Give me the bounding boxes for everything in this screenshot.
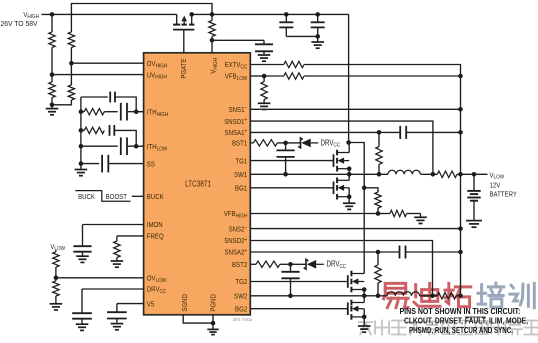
node VFBHIGH top tap (362, 186, 367, 191)
ground V5 cap (111, 323, 124, 325)
resistor R6 (EXTVCC) (284, 61, 304, 67)
svg-text:SNS2−: SNS2− (229, 224, 248, 233)
capacitor C13 (IMON) (82, 225, 84, 247)
ground FREQ resistor (111, 260, 124, 262)
wire SNSD1+ row (250, 121, 433, 174)
svg-text:PGATE: PGATE (180, 58, 188, 79)
transistor M4 (bottom FET ch2) (347, 302, 349, 315)
resistor R10 (BST1) (253, 140, 277, 146)
wire BG1 row (250, 187, 333, 189)
wire SW1 row (250, 173, 388, 175)
capacitor C8 (ITH high ff) (109, 92, 111, 103)
inductor L1 (388, 170, 420, 174)
wire V5 row (117, 303, 144, 305)
wire M4 arrow join (363, 309, 365, 317)
wire VHIGH bypass (212, 39, 264, 41)
wire M2 arrow join (348, 188, 350, 197)
wire SNSA1+ cap to rail (406, 131, 460, 133)
transistor M2 (bottom FET ch1) (333, 182, 335, 195)
svg-text:BATTERY: BATTERY (490, 191, 518, 199)
ground M2 source (348, 197, 350, 204)
capacitor C9 (ITHHIGH) (120, 103, 122, 121)
svg-text:LTC3871: LTC3871 (185, 179, 211, 189)
diode D2 schottky DRVCC-BST2 (304, 259, 309, 269)
capacitor C11 (ITHLOW) (120, 137, 122, 155)
wire SS row (81, 163, 99, 165)
svg-text:BST2: BST2 (232, 261, 247, 269)
wire SNS2- row (250, 228, 460, 230)
resistor R21 (OVLOW lower) (55, 278, 57, 281)
wire top jumper to divider 2 (71, 4, 212, 33)
node ITHLOW junction (134, 144, 139, 149)
svg-text:12V: 12V (490, 182, 501, 190)
wire VHIGH feed to ch2 (349, 143, 365, 274)
node bulk cap ground junction (315, 34, 320, 39)
node VLOW sense junction top (458, 74, 463, 79)
resistor R12 (VFBHIGH lower) (390, 210, 407, 216)
node VFBLOW divider tap (262, 74, 267, 79)
capacitor C14 (DRVCC) (81, 289, 83, 313)
node L1 output (431, 172, 436, 177)
battery BT1 (473, 174, 475, 191)
wire SNSA2+ to cap (378, 251, 400, 253)
svg-text:SNSA1+: SNSA1+ (225, 128, 248, 137)
wire BST2 node to diode (291, 263, 307, 265)
wire bulk cap commons (286, 35, 317, 37)
ground M4 source (363, 317, 365, 326)
wire L1 to shunt (420, 173, 437, 175)
wire BG2 row (250, 308, 347, 310)
node SNSA1+ rail junction (458, 130, 463, 135)
wire OVLOW row (56, 277, 144, 279)
wire ITH top branch (81, 96, 108, 98)
wire C12 to pin (108, 163, 143, 165)
wire TG1 row (250, 160, 333, 162)
resistor R13 (shunt ch1) (437, 171, 457, 177)
svg-text:SW2: SW2 (234, 293, 247, 301)
wire EXTVCC to VLOW rail (304, 65, 461, 77)
node VLOW rail bottom junction (458, 294, 463, 299)
svg-text:SGND: SGND (182, 294, 190, 312)
wire VFBLOW to VLOW rail (304, 75, 461, 77)
capacitor C10 (ITHLOW branch) (109, 125, 111, 136)
node VFBHIGH junction (376, 211, 381, 216)
svg-text:SNSA2+: SNSA2+ (225, 248, 248, 257)
ground ITH bus (80, 164, 82, 170)
wire shunt to VLOW (457, 173, 488, 175)
resistor R8 (VFBLOW upper) (284, 73, 304, 79)
node ITH bus 3 (79, 144, 84, 149)
node ITH bus 4 (79, 161, 84, 166)
wire SNSA2+ cap to rail (406, 251, 461, 253)
wire M1 source to SW1 (348, 169, 350, 175)
resistor R5 (VHIGH series) (211, 14, 213, 20)
ground divider (51, 105, 53, 109)
wire C9 to pin (127, 111, 144, 113)
node SW1 sense tap (377, 172, 382, 177)
inductor L2 (387, 292, 419, 296)
node C5 to SW1 (283, 172, 288, 177)
svg-text:SS: SS (147, 161, 155, 169)
capacitor C2 (input bulk) (285, 14, 287, 22)
resistor R7 (VFBLOW lower) (263, 76, 265, 82)
node M1 source (347, 166, 352, 171)
wire L2 to shunt (420, 295, 438, 297)
node battery junction (472, 172, 477, 177)
resistor R14 (DCR sense ch2) (377, 252, 379, 265)
wire SGND lead (183, 315, 213, 323)
ground bulk caps (317, 36, 319, 42)
wire VFBHIGH to R12 (378, 213, 390, 215)
node ITH bus 2 (79, 128, 84, 133)
resistor R16 (shunt ch2) (437, 293, 456, 299)
resistor R15 (BST2) (256, 261, 280, 267)
wire SNSA2+ row left (250, 251, 378, 253)
ground PGND (212, 323, 214, 329)
node SW2 junction (362, 294, 367, 299)
ground VFBLOW divider (258, 102, 271, 104)
wire BST1 to node (277, 142, 285, 144)
wire BST1 node to diode (286, 142, 301, 144)
node OV tap (69, 61, 74, 66)
wire VLOW sense rail (460, 76, 462, 296)
resistor R9 (DCR sense ch1) (378, 132, 380, 146)
wire OVHIGH (71, 62, 143, 64)
wire VHIGH pin stub (211, 40, 213, 53)
svg-text:BST1: BST1 (232, 140, 247, 148)
svg-text:CLKOUT, DRVSET, FAULT, ILIM, M: CLKOUT, DRVSET, FAULT, ILIM, MODE, (404, 317, 528, 326)
capacitor C7 (BST2) (290, 264, 292, 272)
node M1 drain VHIGH (346, 140, 351, 145)
wire FREQ row (117, 235, 144, 237)
svg-text:PHSMD, RUN, SETCUR AND SYNC.: PHSMD, RUN, SETCUR AND SYNC. (409, 326, 513, 335)
capacitor C3 (input bulk) (317, 14, 319, 22)
node BST1 junction (283, 141, 288, 146)
resistor R4 (OV divider 2 bottom) (70, 63, 72, 85)
label BUCK BOOST levels (75, 191, 130, 202)
watermark row 2 (grey CJK text) (359, 322, 373, 334)
ground battery (466, 220, 482, 222)
svg-text:BUCK: BUCK (147, 193, 164, 201)
capacitor C12 (soft start) (101, 155, 103, 173)
node SNS1- junction (458, 107, 463, 112)
transistor M1 (top FET ch1) (333, 154, 335, 167)
wire C11 to pin (127, 145, 144, 147)
svg-text:BOOST: BOOST (106, 193, 128, 201)
svg-text:V5: V5 (147, 301, 155, 309)
svg-text:SW1: SW1 (234, 171, 247, 179)
ground DRVCC cap (76, 323, 89, 325)
node input junction (50, 12, 55, 17)
wire VFBLOW row (250, 75, 264, 77)
transistor M3 (top FET ch2) (347, 275, 349, 288)
wire VFBLOW row 2 (264, 75, 284, 77)
capacitor C15 (V5) (116, 304, 118, 313)
svg-text:26V TO 58V: 26V TO 58V (1, 19, 38, 28)
wire IMON row (83, 224, 144, 226)
watermark row 1 (red/slate CJK logo) (384, 283, 409, 307)
node ITH bus 1 (79, 109, 84, 114)
capacitor C6 (SNSA2 filter) (399, 246, 401, 259)
node SW2 sense tap (376, 294, 381, 299)
wire C8 to ITHHIGH (115, 97, 136, 112)
wire BST2 stub (250, 263, 256, 265)
wire SW2 row (250, 295, 387, 297)
node divider ground junction (50, 103, 55, 108)
node VHIGH pin junction (210, 38, 215, 43)
node SNSA1+ tap (377, 130, 382, 135)
wire SNSA1+ row left (250, 131, 379, 133)
wire ITHLOW row (81, 145, 118, 147)
node M3 source (362, 287, 367, 292)
svg-text:BG1: BG1 (235, 185, 247, 193)
wire BUCK pin (132, 195, 144, 197)
node L2 output (430, 294, 435, 299)
wire VHIGH down to M1 drain (348, 14, 350, 142)
ground VFBHIGH divider (414, 216, 427, 218)
wire M3 source to SW2 (363, 290, 365, 296)
resistor R18 (ITHLOW branch) (81, 129, 84, 131)
svg-text:SNS1−: SNS1− (229, 105, 248, 114)
node M4 source (362, 315, 367, 320)
svg-text:3871 TA01a: 3871 TA01a (233, 316, 253, 322)
wire TG2 row (250, 281, 347, 283)
node ITHHIGH junction (134, 109, 139, 114)
svg-text:BUCK: BUCK (78, 193, 95, 201)
resistor R17 (ITHHIGH) (84, 109, 104, 115)
svg-text:IMON: IMON (147, 222, 163, 230)
svg-text:SNSD2+: SNSD2+ (224, 236, 247, 245)
wire BST2 to node (280, 263, 291, 265)
wire SNSA1+ to cap (379, 131, 400, 133)
wire branch2 to ITHLOW (114, 130, 136, 146)
capacitor C1 (VHIGH bypass) (255, 43, 273, 45)
node UV tap (50, 72, 55, 77)
node C7 to SW2 (288, 294, 293, 299)
wire PGND lead (212, 315, 214, 323)
svg-text:SNSD1+: SNSD1+ (224, 117, 247, 126)
wire VFBHIGH row (250, 213, 378, 215)
wire VHIGH rail to cap corner (192, 13, 349, 15)
resistor R3 (OV divider 2 top) (68, 32, 74, 48)
node rail C2 (284, 12, 289, 17)
wire BST1 stub (250, 142, 253, 144)
wire shunt2 to rail (456, 295, 461, 297)
wire ITH bus (80, 97, 82, 166)
wire R12 to ground (407, 213, 421, 215)
resistor R11 (VFBHIGH upper) (375, 192, 381, 208)
node SW1 junction (347, 172, 352, 177)
svg-text:FREQ: FREQ (147, 233, 164, 241)
op-amp U1 LTC3871 controller body (144, 53, 251, 315)
node PGND junction (211, 321, 216, 326)
node SNSA2+ rail junction (458, 250, 463, 255)
node M2 source (347, 194, 352, 199)
svg-text:TG1: TG1 (235, 158, 247, 166)
diode D1 schottky DRVCC-BST1 (298, 138, 303, 148)
svg-text:BG2: BG2 (235, 306, 247, 314)
node rail R5 junction (210, 12, 215, 17)
node SNSA2+ tap (376, 250, 381, 255)
svg-text:TG2: TG2 (235, 279, 247, 287)
capacitor C4 (SNSA1 filter) (399, 126, 401, 139)
svg-text:PGND: PGND (210, 294, 218, 312)
wire UVHIGH (52, 74, 144, 76)
svg-text:PINS NOT SHOWN IN THIS CIRCUIT: PINS NOT SHOWN IN THIS CIRCUIT: (400, 307, 521, 316)
resistor R20 (OVLOW upper) (55, 250, 57, 252)
node BST2 junction (288, 262, 293, 267)
resistor R2 (UV divider bottom) (49, 82, 55, 98)
ground IMON cap (76, 255, 89, 257)
ground OVLOW divider (50, 303, 63, 305)
wire SNSD2+ row (250, 241, 432, 297)
capacitor C5 (BST1) (285, 143, 287, 151)
node SNS2- junction (458, 226, 463, 231)
resistor R19 (FREQ) (116, 236, 118, 241)
node OVLOW tap (54, 276, 59, 281)
wire VHIGH input rail (42, 13, 177, 15)
wire DRVCC row (82, 288, 144, 290)
wire SNS1- row (250, 108, 460, 110)
wire EXTVCC row (250, 64, 283, 66)
node Q1 drain (189, 12, 194, 17)
resistor R1 (OV divider top) (51, 14, 53, 32)
wire VFBHIGH top tap (364, 188, 378, 192)
wire R17 to C9 (104, 111, 117, 113)
node VLOW rail junction (458, 172, 463, 177)
transistor Q1 PGATE PMOS (176, 14, 178, 24)
node rail C3 (315, 12, 320, 17)
